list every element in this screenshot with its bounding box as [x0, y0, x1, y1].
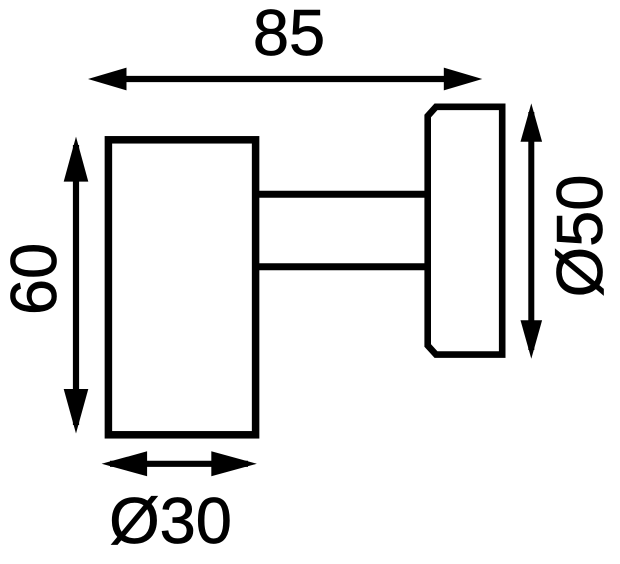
- svg-text:60: 60: [0, 243, 70, 315]
- connector bottom wire: [255, 263, 428, 270]
- dimension D50 top arrowhead: [521, 103, 543, 141]
- dimension D30 right arrowhead: [211, 451, 256, 476]
- dimension 60 top arrowhead: [64, 137, 89, 182]
- dimension 85 line: [120, 76, 450, 82]
- dimension 85 left arrowhead: [88, 68, 127, 91]
- svg-text:85: 85: [253, 0, 325, 69]
- wall plate outline (chamfered left corners): [428, 107, 503, 355]
- dimension D30 line: [110, 461, 248, 467]
- svg-text:Ø50: Ø50: [543, 175, 616, 298]
- dimension 85 right arrowhead: [444, 68, 483, 91]
- dimension 60 bottom arrowhead: [64, 389, 89, 434]
- dimension 60 line: [73, 145, 79, 425]
- svg-text:Ø30: Ø30: [109, 484, 232, 557]
- dimension D30 left arrowhead: [102, 451, 148, 476]
- dimension D50 line: [528, 112, 534, 350]
- dimension D50 bottom arrowhead: [521, 320, 543, 359]
- cylinder body rectangle (front view): [108, 140, 255, 435]
- connector top wire: [255, 191, 428, 198]
